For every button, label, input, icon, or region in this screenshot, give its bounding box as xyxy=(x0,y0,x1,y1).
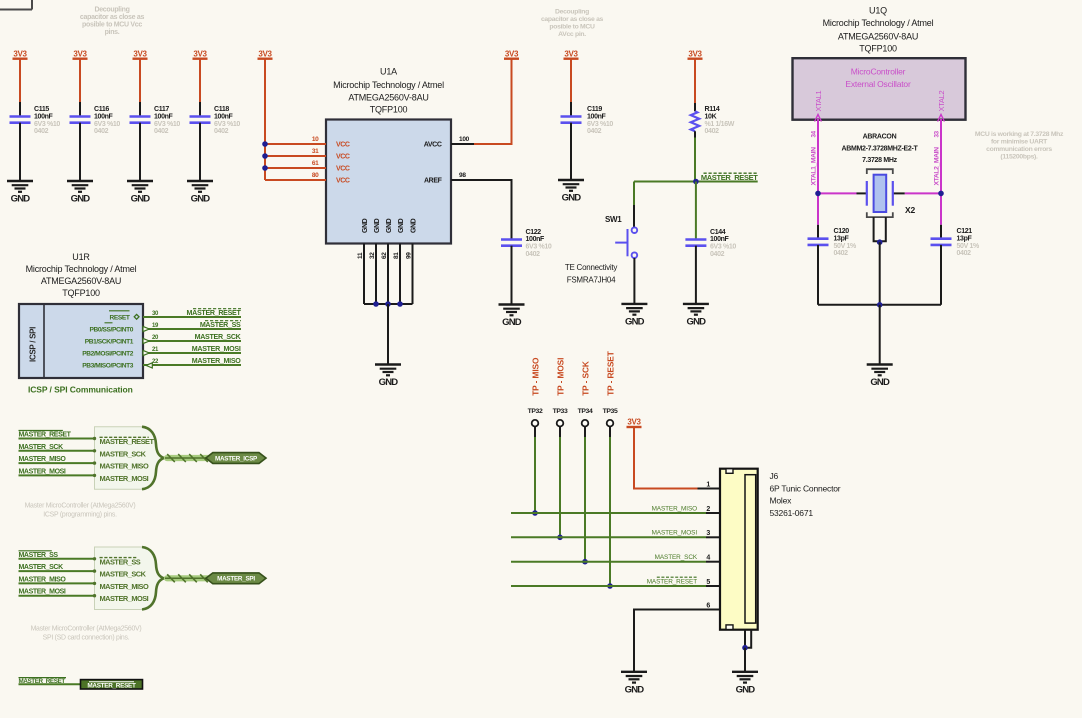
value labels C116 xyxy=(94,106,120,135)
wire C116 upper lead xyxy=(79,102,81,117)
svg-text:RESET: RESET xyxy=(110,315,130,322)
IC U1R designator xyxy=(26,252,137,298)
wire harness MASTER_SS xyxy=(19,558,95,560)
pin arrow 20 xyxy=(143,338,149,343)
svg-text:MASTER_RESET: MASTER_RESET xyxy=(100,437,155,446)
svg-text:TP34: TP34 xyxy=(578,408,593,415)
svg-text:62: 62 xyxy=(381,252,388,259)
wire C122 to ground xyxy=(511,246,513,305)
capacitor C120 xyxy=(808,239,829,245)
svg-text:53261-0671: 53261-0671 xyxy=(770,508,814,518)
overbar RESET pin xyxy=(109,310,130,312)
svg-text:3V3: 3V3 xyxy=(13,50,27,59)
crystal X2 labels xyxy=(841,134,918,165)
svg-text:MASTER_SCK: MASTER_SCK xyxy=(195,333,242,341)
wire XTAL2 to C121 xyxy=(940,225,942,239)
power 3V3 for U1A VCC xyxy=(258,50,273,59)
svg-text:VCC: VCC xyxy=(336,178,350,185)
wire crystal case to rail xyxy=(879,242,881,305)
svg-text:6V3 %10: 6V3 %10 xyxy=(94,121,120,128)
svg-text:13pF: 13pF xyxy=(957,235,973,242)
wire net MASTER_MOSI xyxy=(143,352,241,354)
svg-text:GND: GND xyxy=(374,218,381,233)
svg-text:GND: GND xyxy=(736,685,756,696)
svg-text:MASTER_MISO: MASTER_MISO xyxy=(19,456,67,463)
svg-text:posible to MCU Vcc: posible to MCU Vcc xyxy=(82,22,142,29)
wire TP34 to net xyxy=(584,437,586,562)
ground C118 xyxy=(187,181,213,205)
value labels C115 xyxy=(34,106,60,135)
svg-text:100nF: 100nF xyxy=(154,113,174,120)
svg-text:21: 21 xyxy=(152,347,159,353)
wire J6 shield to ground xyxy=(744,648,746,672)
note master SPI xyxy=(31,626,142,642)
capacitor C118 xyxy=(190,117,211,123)
wire TP34 stub xyxy=(584,427,586,438)
power 3V3 for C116 xyxy=(73,50,88,59)
node MASTER_RESET junction xyxy=(693,179,699,185)
svg-text:GND: GND xyxy=(411,218,418,233)
svg-text:MASTER_SCK: MASTER_SCK xyxy=(100,570,147,579)
svg-text:VCC: VCC xyxy=(336,154,350,161)
wire MASTER_RESET port xyxy=(19,683,81,685)
svg-text:MASTER_MOSI: MASTER_MOSI xyxy=(192,345,241,353)
svg-text:0402: 0402 xyxy=(705,128,720,135)
harness SPI cable xyxy=(165,574,208,582)
svg-text:50V 1%: 50V 1% xyxy=(957,243,981,250)
svg-text:GND: GND xyxy=(687,317,707,328)
svg-text:TP32: TP32 xyxy=(528,408,543,415)
svg-text:MASTER_MOSI: MASTER_MOSI xyxy=(19,589,66,596)
svg-text:6V3 %10: 6V3 %10 xyxy=(154,121,180,128)
svg-text:XTAL2_MAIN: XTAL2_MAIN xyxy=(934,147,941,186)
connector J6 body xyxy=(720,469,758,630)
port MASTER_RESET xyxy=(81,680,143,690)
svg-text:(115200bps).: (115200bps). xyxy=(1000,154,1038,161)
wire 3V3 to C116 xyxy=(79,59,81,102)
harness entry dot MASTER_SCK xyxy=(93,449,96,452)
svg-text:PB3/MISO/PCINT3: PB3/MISO/PCINT3 xyxy=(82,363,134,370)
svg-text:ICSP / SPI Communication: ICSP / SPI Communication xyxy=(28,385,133,395)
capacitor C115 xyxy=(10,117,31,123)
svg-text:MASTER_SS: MASTER_SS xyxy=(19,552,59,559)
svg-text:0402: 0402 xyxy=(834,250,849,257)
svg-text:TE Connectivity: TE Connectivity xyxy=(565,263,618,272)
value labels R114 xyxy=(705,106,735,135)
svg-text:MASTER_RESET: MASTER_RESET xyxy=(19,432,72,439)
svg-text:PB0/SS/PCINT0: PB0/SS/PCINT0 xyxy=(89,327,133,334)
wire R114 bottom lead xyxy=(694,131,696,137)
svg-text:C121: C121 xyxy=(957,228,973,235)
svg-text:22: 22 xyxy=(152,359,159,365)
svg-text:U1R: U1R xyxy=(72,252,90,262)
wire SW1 to ground xyxy=(633,258,635,304)
svg-text:2: 2 xyxy=(706,506,710,513)
svg-text:VCC: VCC xyxy=(336,166,350,173)
note decoupling Vcc xyxy=(80,7,145,37)
svg-text:11: 11 xyxy=(357,252,364,259)
crystal X2 xyxy=(867,169,893,217)
svg-text:99: 99 xyxy=(405,252,412,259)
svg-text:MASTER_RESET: MASTER_RESET xyxy=(647,578,697,585)
test point TP35 pad xyxy=(607,420,614,427)
svg-text:GND: GND xyxy=(386,218,393,233)
harness SPI body xyxy=(95,547,164,610)
op-amp U1A designator xyxy=(333,67,444,115)
wire crystal right xyxy=(905,192,941,194)
svg-text:ABRACON: ABRACON xyxy=(863,134,897,141)
wire GND pin 11 xyxy=(363,244,365,305)
svg-text:capacitor as close as: capacitor as close as xyxy=(80,14,145,21)
svg-text:3V3: 3V3 xyxy=(133,50,147,59)
node GND junction 62 xyxy=(385,301,391,307)
wire J6 shield left xyxy=(744,630,746,648)
svg-text:0402: 0402 xyxy=(710,251,725,258)
note decoupling AVcc xyxy=(541,9,604,39)
wire net MASTER_RESET xyxy=(143,316,241,318)
wire C120 to rail xyxy=(817,245,819,305)
capacitor C117 xyxy=(130,117,151,123)
svg-text:ATMEGA2560V-8AU: ATMEGA2560V-8AU xyxy=(41,276,121,286)
power 3V3 for R114 xyxy=(688,50,703,59)
wire C144 to ground xyxy=(695,246,697,304)
wire C117 to ground xyxy=(139,123,141,181)
power 3V3 for AVCC xyxy=(504,50,519,59)
wire net MASTER_SCK xyxy=(143,340,241,342)
svg-text:3V3: 3V3 xyxy=(505,50,519,59)
harness entry dot MASTER_MOSI xyxy=(93,594,96,597)
svg-text:XTAL2: XTAL2 xyxy=(937,90,946,111)
svg-text:Microchip Technology / Atmel: Microchip Technology / Atmel xyxy=(333,80,444,90)
harness overbar MASTER_RESET xyxy=(100,436,149,438)
svg-text:MASTER_MOSI: MASTER_MOSI xyxy=(19,468,66,475)
svg-text:External Oscillator: External Oscillator xyxy=(845,79,911,89)
value labels C119 xyxy=(587,106,613,135)
ground J6 shield xyxy=(732,672,758,696)
wire TP32 stub xyxy=(534,427,536,438)
node rail junction xyxy=(877,302,883,308)
note master ICSP xyxy=(25,503,136,519)
svg-text:capacitor as close as: capacitor as close as xyxy=(541,16,604,23)
svg-text:pins.: pins. xyxy=(105,29,120,36)
harness entry dot MASTER_SS xyxy=(93,557,96,560)
svg-text:MASTER_RESET: MASTER_RESET xyxy=(87,682,136,689)
svg-text:20: 20 xyxy=(152,335,159,341)
ground C119 xyxy=(558,180,584,204)
wire harness MASTER_MOSI xyxy=(19,474,95,476)
svg-text:MASTER_SS: MASTER_SS xyxy=(200,321,241,329)
harness ICSP brace xyxy=(142,427,164,490)
capacitor C122 xyxy=(501,240,522,246)
wire 3V3 to C117 xyxy=(139,59,141,102)
wire MASTER_RESET to J6 xyxy=(511,585,706,587)
svg-text:ATMEGA2560V-8AU: ATMEGA2560V-8AU xyxy=(348,92,428,102)
ground C144 xyxy=(683,304,709,328)
wire TP32 to net xyxy=(534,437,536,513)
harness ICSP cable xyxy=(165,454,208,462)
wire XTAL1_MAIN xyxy=(817,119,819,225)
svg-text:MicroController: MicroController xyxy=(851,67,906,77)
svg-text:GND: GND xyxy=(11,194,31,205)
svg-text:100nF: 100nF xyxy=(710,236,730,243)
svg-text:TP - MISO: TP - MISO xyxy=(530,357,540,396)
node TP32 junction xyxy=(532,510,538,516)
svg-text:100nF: 100nF xyxy=(526,236,546,243)
power 3V3 for C118 xyxy=(193,50,208,59)
svg-text:1: 1 xyxy=(706,481,710,488)
pin arrow 19 xyxy=(143,326,149,331)
wire GND rail U1A xyxy=(364,303,413,305)
wire C118 to ground xyxy=(199,123,201,181)
wire MASTER_RESET to C144 xyxy=(695,182,697,240)
harness ICSP body xyxy=(95,427,164,490)
wire C116 to ground xyxy=(79,123,81,181)
IC U1Q designator xyxy=(823,5,934,53)
svg-text:MASTER_MISO: MASTER_MISO xyxy=(192,357,242,365)
svg-text:SPI (SD card connection) pins.: SPI (SD card connection) pins. xyxy=(43,635,130,642)
svg-text:ICSP / SPI: ICSP / SPI xyxy=(29,327,38,362)
pin arrow XTAL1 xyxy=(815,115,822,122)
svg-text:3V3: 3V3 xyxy=(258,50,272,59)
wire TP33 to net xyxy=(559,437,561,537)
net label MASTER_RESET xyxy=(701,173,758,182)
svg-text:0402: 0402 xyxy=(94,128,109,135)
svg-text:communication errors: communication errors xyxy=(986,146,1052,153)
wire AVCC to 3V3 xyxy=(474,59,512,144)
wire R114 to MASTER_RESET node xyxy=(694,138,696,182)
reset pin glyph xyxy=(134,314,139,319)
svg-text:0402: 0402 xyxy=(154,128,169,135)
wire net MASTER_MISO xyxy=(143,364,241,366)
svg-text:TQFP100: TQFP100 xyxy=(370,105,408,115)
svg-text:Microchip Technology / Atmel: Microchip Technology / Atmel xyxy=(823,18,934,28)
wire C119 to ground xyxy=(570,123,572,180)
svg-text:30: 30 xyxy=(152,311,159,317)
wire C115 to ground xyxy=(19,123,21,181)
svg-text:R114: R114 xyxy=(705,106,720,113)
ground J6 pin6 xyxy=(621,672,647,696)
svg-text:for minimise UART: for minimise UART xyxy=(991,139,1048,146)
svg-text:MASTER_SCK: MASTER_SCK xyxy=(100,449,147,458)
ground oscillator xyxy=(867,365,893,389)
wire GND pin 81 xyxy=(399,244,401,305)
svg-text:100nF: 100nF xyxy=(214,113,234,120)
svg-text:MASTER_MISO: MASTER_MISO xyxy=(19,576,67,583)
ground U1A xyxy=(375,365,401,389)
wire MASTER_RESET horizontal xyxy=(634,181,758,183)
svg-text:Master MicroController (AtMega: Master MicroController (AtMega2560V) xyxy=(31,626,142,633)
wire VCC pin 61 xyxy=(265,167,326,169)
ground SW1 xyxy=(621,304,647,328)
svg-text:TP - SCK: TP - SCK xyxy=(580,361,590,396)
node TP34 junction xyxy=(582,559,588,565)
svg-text:6V3 %10: 6V3 %10 xyxy=(587,121,613,128)
IC U1A body xyxy=(326,120,451,244)
svg-text:98: 98 xyxy=(459,172,466,179)
node crystal case junction xyxy=(877,239,883,245)
overbar MASTER_RESET xyxy=(193,308,241,310)
svg-text:81: 81 xyxy=(393,252,400,259)
svg-text:MASTER_SPI: MASTER_SPI xyxy=(217,576,255,583)
svg-text:TP33: TP33 xyxy=(553,408,568,415)
ground C122 xyxy=(499,305,525,329)
svg-text:0402: 0402 xyxy=(526,251,541,258)
svg-text:10: 10 xyxy=(312,136,319,143)
value labels C144 xyxy=(710,229,736,258)
wire harness MASTER_SCK xyxy=(19,450,95,452)
wire MASTER_MISO to J6 xyxy=(511,512,706,514)
wire harness MASTER_MISO xyxy=(19,462,95,464)
svg-text:MASTER_SCK: MASTER_SCK xyxy=(19,444,64,451)
svg-text:TP - MOSI: TP - MOSI xyxy=(555,358,565,396)
overbar SS in PB0 xyxy=(105,322,113,324)
svg-text:MASTER_MOSI: MASTER_MOSI xyxy=(652,530,698,537)
svg-text:3V3: 3V3 xyxy=(688,50,702,59)
svg-text:3: 3 xyxy=(706,530,710,537)
wire J6 pin6 to ground xyxy=(634,610,720,672)
wire GND pin 32 xyxy=(375,244,377,305)
test point TP32 pad xyxy=(532,420,539,427)
wire MASTER_SCK to J6 xyxy=(511,561,706,563)
svg-text:PB1/SCK/PCINT1: PB1/SCK/PCINT1 xyxy=(85,339,134,346)
svg-text:0402: 0402 xyxy=(214,128,229,135)
value labels C120 xyxy=(834,228,858,257)
harness connector MASTER_SPI xyxy=(206,573,266,584)
wire harness MASTER_MISO xyxy=(19,582,95,584)
note UART frequency xyxy=(975,131,1064,161)
svg-text:MASTER_RESET: MASTER_RESET xyxy=(19,678,66,685)
harness entry dot MASTER_MISO xyxy=(93,582,96,585)
wire rail to ground xyxy=(879,305,881,365)
node VCC junction 31 xyxy=(262,153,268,159)
svg-text:MASTER_MISO: MASTER_MISO xyxy=(100,462,149,471)
svg-text:Decoupling: Decoupling xyxy=(94,7,129,14)
svg-text:Microchip Technology / Atmel: Microchip Technology / Atmel xyxy=(26,264,137,274)
svg-text:7.3728 MHz: 7.3728 MHz xyxy=(862,157,898,164)
wire J6 pin5 stub xyxy=(706,585,720,587)
wire C118 upper lead xyxy=(199,102,201,117)
svg-text:100nF: 100nF xyxy=(94,113,114,120)
svg-text:MASTER_MOSI: MASTER_MOSI xyxy=(100,594,149,603)
svg-text:6V3 %10: 6V3 %10 xyxy=(526,244,552,251)
harness overbar MASTER_SS xyxy=(100,557,137,559)
svg-text:C115: C115 xyxy=(34,106,49,113)
svg-text:5: 5 xyxy=(706,579,710,586)
wire MASTER_MOSI to J6 xyxy=(511,536,706,538)
svg-text:61: 61 xyxy=(312,160,319,167)
wire J6 shield right xyxy=(745,630,751,648)
label SW1 part xyxy=(565,263,618,284)
node GND junction 81 xyxy=(397,301,403,307)
capacitor C116 xyxy=(70,117,91,123)
harness entry dot MASTER_SCK xyxy=(93,569,96,572)
overbar MASTER_SS xyxy=(19,550,52,552)
wire 3V3 to C118 xyxy=(199,59,201,102)
svg-text:AREF: AREF xyxy=(424,178,443,185)
svg-text:MASTER_ICSP: MASTER_ICSP xyxy=(215,455,257,462)
wire MASTER_RESET down to SW1 xyxy=(633,182,635,206)
svg-text:Master MicroController (AtMega: Master MicroController (AtMega2560V) xyxy=(25,503,136,510)
wire VCC pin 10 xyxy=(265,143,326,145)
harness entry dot MASTER_MISO xyxy=(93,461,96,464)
svg-text:GND: GND xyxy=(625,317,645,328)
svg-text:TP - RESET: TP - RESET xyxy=(605,351,615,396)
value labels C118 xyxy=(214,106,240,135)
wire harness MASTER_SCK xyxy=(19,570,95,572)
ground C117 xyxy=(127,181,153,205)
svg-text:4: 4 xyxy=(706,555,710,562)
overbar MASTER_RESET xyxy=(19,430,63,432)
svg-text:3V3: 3V3 xyxy=(193,50,207,59)
harness entry dot MASTER_RESET xyxy=(93,437,96,440)
wire C117 upper lead xyxy=(139,102,141,117)
label J6 xyxy=(770,471,841,518)
wire J6 pin1 stub xyxy=(698,488,721,490)
svg-text:%1 1/16W: %1 1/16W xyxy=(705,121,735,128)
ground C115 xyxy=(7,181,33,205)
U1R divider xyxy=(43,304,45,378)
switch SW1 xyxy=(615,227,637,258)
svg-text:J6: J6 xyxy=(770,471,779,481)
svg-text:GND: GND xyxy=(502,317,522,328)
resistor R114 xyxy=(691,111,699,131)
svg-text:GND: GND xyxy=(379,377,399,388)
value labels C117 xyxy=(154,106,180,135)
IC U1R body xyxy=(19,304,143,378)
svg-text:0402: 0402 xyxy=(957,250,972,257)
svg-text:MASTER_MISO: MASTER_MISO xyxy=(100,582,149,591)
wire XTAL1 to C120 xyxy=(817,225,819,239)
svg-text:Decoupling: Decoupling xyxy=(555,9,589,16)
svg-text:Molex: Molex xyxy=(770,496,793,506)
svg-text:3V3: 3V3 xyxy=(73,50,87,59)
wire GND pin 62 xyxy=(387,244,389,305)
wire net MASTER_SS xyxy=(143,328,241,330)
node GND junction 32 xyxy=(373,301,379,307)
svg-text:ATMEGA2560V-8AU: ATMEGA2560V-8AU xyxy=(838,31,918,41)
svg-text:3V3: 3V3 xyxy=(627,418,641,427)
harness entry dot MASTER_MOSI xyxy=(93,474,96,477)
wire C115 upper lead xyxy=(19,102,21,117)
svg-text:GND: GND xyxy=(191,194,211,205)
svg-text:C118: C118 xyxy=(214,106,229,113)
pin arrow 22 xyxy=(146,363,152,368)
svg-text:10K: 10K xyxy=(705,113,717,120)
svg-text:FSMRA7JH04: FSMRA7JH04 xyxy=(567,275,616,284)
svg-text:100nF: 100nF xyxy=(34,113,54,120)
svg-text:6V3 %10: 6V3 %10 xyxy=(34,121,60,128)
svg-text:0402: 0402 xyxy=(587,128,602,135)
svg-text:TQFP100: TQFP100 xyxy=(62,288,100,298)
svg-text:MASTER_MOSI: MASTER_MOSI xyxy=(100,474,149,483)
svg-text:C119: C119 xyxy=(587,106,602,113)
node XTAL1 junction xyxy=(815,191,821,197)
wire 3V3 to C115 xyxy=(19,59,21,102)
svg-text:ABMM2-7.3728MHZ-E2-T: ABMM2-7.3728MHZ-E2-T xyxy=(841,145,918,152)
svg-text:XTAL1_MAIN: XTAL1_MAIN xyxy=(811,147,818,186)
svg-text:34: 34 xyxy=(811,130,818,137)
svg-text:6V3 %10: 6V3 %10 xyxy=(214,121,240,128)
crystal case pin xyxy=(874,217,886,241)
svg-text:32: 32 xyxy=(369,252,376,259)
svg-text:posible to MCU: posible to MCU xyxy=(549,24,595,31)
svg-text:U1Q: U1Q xyxy=(869,5,887,15)
wire GND pin 99 xyxy=(412,244,414,305)
wire AREF to C122 xyxy=(451,180,512,240)
svg-text:AVCC: AVCC xyxy=(424,142,442,149)
svg-text:GND: GND xyxy=(625,685,645,696)
ground C116 xyxy=(67,181,93,205)
